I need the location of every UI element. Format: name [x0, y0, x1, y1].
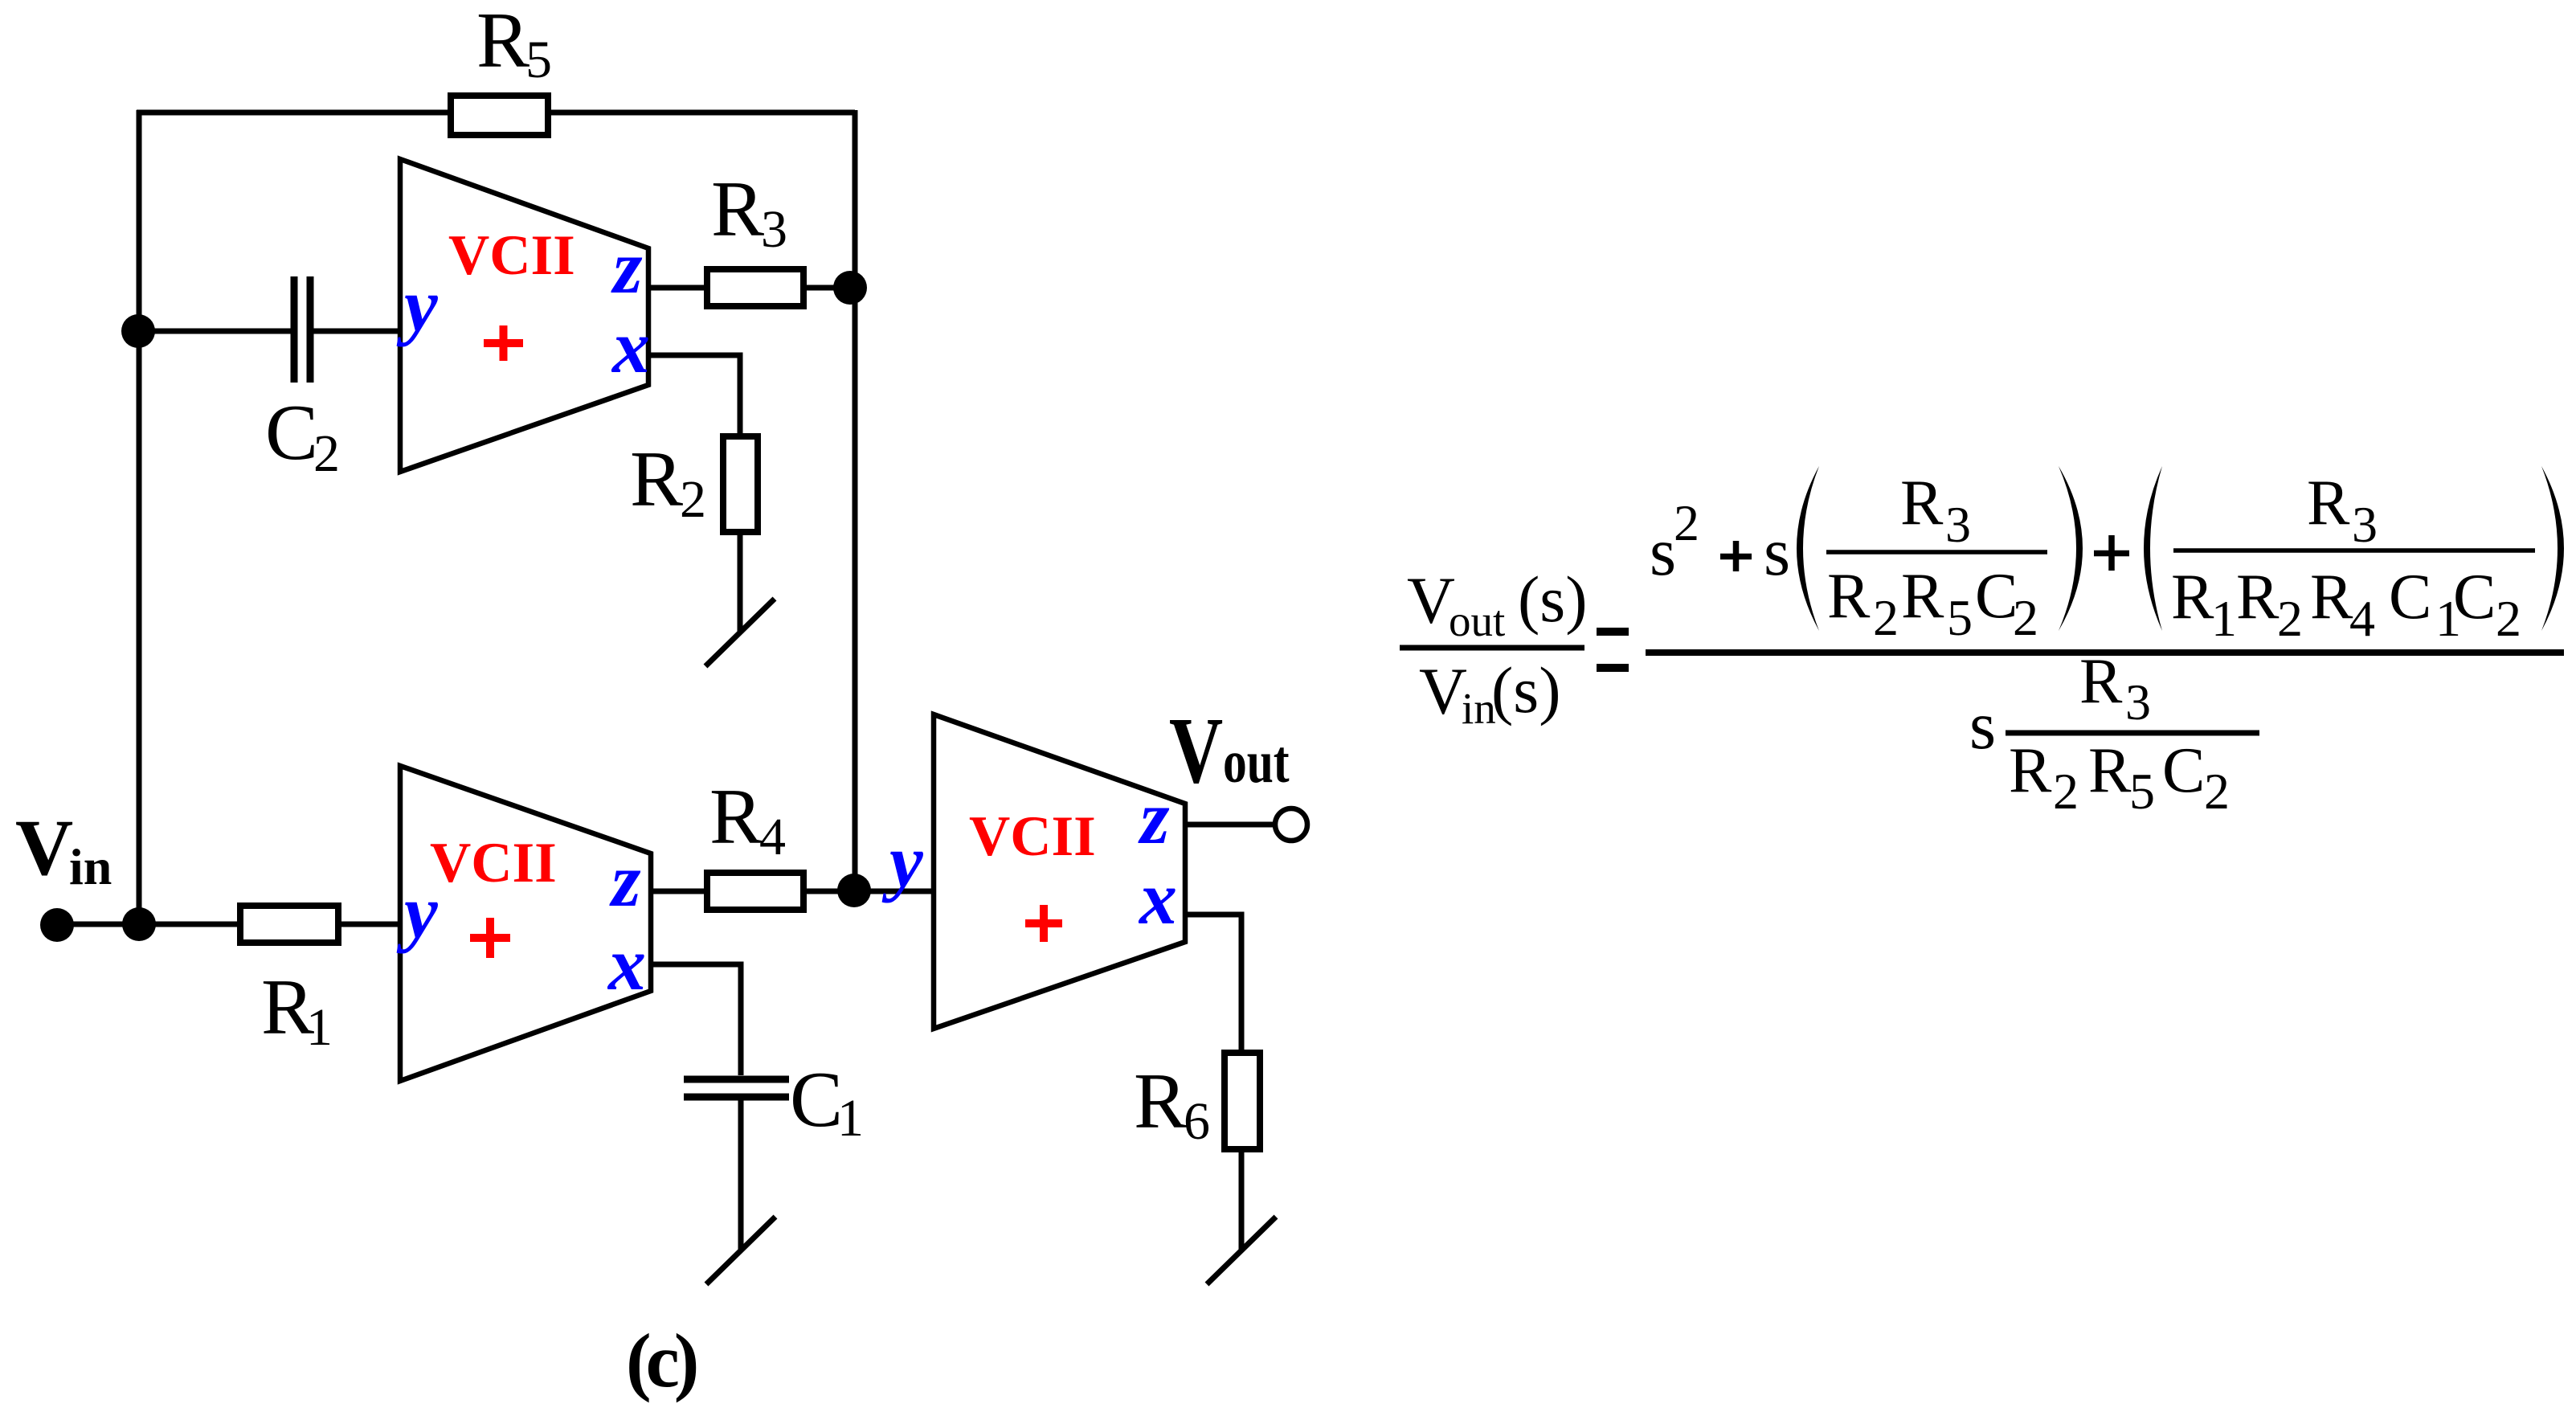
svg-text:V: V: [1169, 697, 1223, 802]
wire x1 horizontal then down to R2: [648, 355, 740, 433]
svg-text:2: 2: [2277, 590, 2303, 647]
svg-text:V: V: [1407, 563, 1455, 637]
wire Vin to R1: [57, 922, 237, 927]
svg-text:2: 2: [2013, 589, 2038, 646]
op-amp U3 VCII trapezoid: [934, 714, 1185, 1029]
label Vout: [1169, 697, 1290, 802]
svg-text:R: R: [709, 773, 763, 861]
svg-text:R: R: [2079, 646, 2123, 717]
resistor R4: [707, 873, 803, 910]
svg-text:out: out: [1223, 727, 1290, 795]
formula big right paren 2: [2541, 466, 2564, 631]
ground under R2: [705, 599, 775, 666]
resistor R5: [451, 96, 548, 135]
svg-text:3: 3: [2125, 673, 2151, 731]
resistor R2: [723, 436, 758, 532]
svg-text:z: z: [611, 226, 643, 309]
op-amp U1 VCII trapezoid: [400, 159, 648, 472]
resistor R3: [707, 269, 803, 306]
svg-text:C: C: [265, 389, 318, 477]
svg-text:1: 1: [306, 998, 333, 1057]
formula big left paren 1: [1797, 466, 1819, 631]
capacitor C2 plates: [294, 276, 310, 383]
svg-text:R: R: [2009, 735, 2052, 806]
svg-text:1: 1: [837, 1089, 864, 1148]
formula main fraction bar: [1646, 649, 2564, 656]
svg-text:2: 2: [313, 424, 340, 483]
wire C1 to ground: [738, 1100, 744, 1250]
wire R2 to ground: [738, 535, 743, 632]
svg-text:5: 5: [2129, 763, 2155, 820]
wire R6 to ground: [1239, 1152, 1245, 1250]
node junction R3/rail: [833, 271, 867, 305]
wire x3 horizontal then down to R6: [1185, 915, 1241, 1050]
svg-text:s: s: [1650, 514, 1676, 590]
svg-text:R: R: [476, 0, 530, 84]
node C2 junction: [121, 314, 155, 348]
formula equals sign: [1597, 632, 1629, 668]
svg-text:(c): (c): [626, 1318, 697, 1403]
svg-text:in: in: [69, 838, 112, 895]
svg-text:z: z: [609, 839, 641, 923]
svg-text:(s): (s): [1491, 653, 1561, 726]
svg-text:VCII: VCII: [448, 224, 575, 287]
wire z3 to output terminal: [1185, 822, 1274, 828]
op-amp U2 VCII trapezoid: [400, 766, 651, 1081]
wire left vertical rail x=173: [137, 110, 142, 924]
svg-text:x: x: [1138, 857, 1177, 940]
wire top feedback from Vin node to right vertical rail: [137, 110, 855, 116]
svg-text:C: C: [1975, 561, 2018, 632]
resistor R6: [1225, 1053, 1260, 1149]
svg-text:4: 4: [759, 808, 786, 866]
svg-text:R: R: [1134, 1058, 1187, 1145]
wire C2 left segment: [139, 329, 294, 334]
svg-text:2: 2: [2204, 763, 2230, 820]
wire R4 to y pin U3: [807, 889, 934, 894]
svg-text:(s): (s): [1518, 563, 1588, 636]
svg-text:R: R: [1901, 561, 1944, 632]
svg-text:3: 3: [761, 200, 787, 259]
svg-text:V: V: [1419, 654, 1467, 728]
svg-text:R: R: [1827, 561, 1871, 632]
node Vin terminal dot: [40, 908, 74, 942]
svg-text:x: x: [607, 923, 646, 1006]
svg-text:R: R: [1900, 468, 1944, 538]
svg-text:R: R: [2236, 562, 2280, 632]
svg-text:R: R: [2088, 735, 2132, 806]
svg-text:s: s: [1764, 514, 1790, 590]
ground under R6: [1207, 1217, 1276, 1284]
wire C2 right segment to y pin of U1: [310, 329, 400, 334]
svg-text:R: R: [2171, 562, 2214, 632]
svg-text:z: z: [1138, 776, 1170, 860]
wire right vertical rail x=1064: [853, 110, 858, 891]
wire R1 to y pin U2: [341, 922, 400, 927]
wire z2 to R4: [651, 889, 704, 894]
node Vin junction: [122, 907, 156, 941]
formula inner fraction 1 bar: [1826, 550, 2047, 555]
svg-text:R: R: [2307, 468, 2350, 538]
svg-text:2: 2: [680, 470, 706, 529]
svg-text:R: R: [630, 436, 683, 523]
svg-text:4: 4: [2349, 590, 2375, 647]
formula big left paren 2: [2144, 466, 2162, 631]
svg-text:C: C: [2162, 735, 2205, 806]
wire x2 horizontal then down to C1: [651, 964, 741, 1075]
svg-text:x: x: [611, 305, 650, 389]
wire R3 to rail: [807, 285, 855, 291]
svg-text:3: 3: [1945, 496, 1971, 553]
formula big right paren 1: [2059, 466, 2083, 631]
svg-text:2: 2: [2496, 590, 2521, 647]
svg-text:V: V: [15, 803, 73, 892]
svg-text:VCII: VCII: [430, 832, 557, 894]
svg-text:5: 5: [1947, 589, 1973, 646]
svg-text:VCII: VCII: [969, 805, 1096, 868]
node junction R4/rail: [837, 874, 871, 907]
svg-text:out: out: [1449, 596, 1505, 645]
ground under C1: [706, 1217, 775, 1284]
svg-text:R: R: [2310, 562, 2353, 632]
resistor R1: [240, 906, 338, 943]
svg-text:R: R: [711, 166, 764, 253]
formula inner fraction 2 bar: [2173, 548, 2535, 553]
plus sign U3: [1025, 905, 1062, 942]
formula LHS fraction bar: [1400, 645, 1584, 651]
capacitor C1 plates: [684, 1079, 789, 1097]
formula numerator plus 2: [2094, 535, 2129, 571]
plus sign U2: [470, 918, 510, 958]
formula numerator plus 1: [1720, 541, 1752, 571]
svg-text:2: 2: [1674, 494, 1699, 551]
svg-text:2: 2: [2053, 763, 2079, 820]
svg-text:3: 3: [2352, 496, 2378, 553]
svg-text:C: C: [2453, 562, 2496, 632]
svg-text:6: 6: [1184, 1092, 1210, 1151]
svg-text:s: s: [1969, 688, 1996, 763]
svg-text:1: 1: [2211, 590, 2237, 647]
formula denominator fraction bar: [2006, 731, 2259, 736]
svg-text:C: C: [2389, 562, 2431, 632]
svg-text:C: C: [790, 1056, 843, 1144]
svg-text:2: 2: [1873, 589, 1899, 646]
wire z1 to R3: [648, 285, 704, 291]
plus sign U1: [484, 325, 523, 361]
output terminal circle Vout: [1275, 808, 1307, 841]
svg-text:5: 5: [525, 31, 552, 89]
